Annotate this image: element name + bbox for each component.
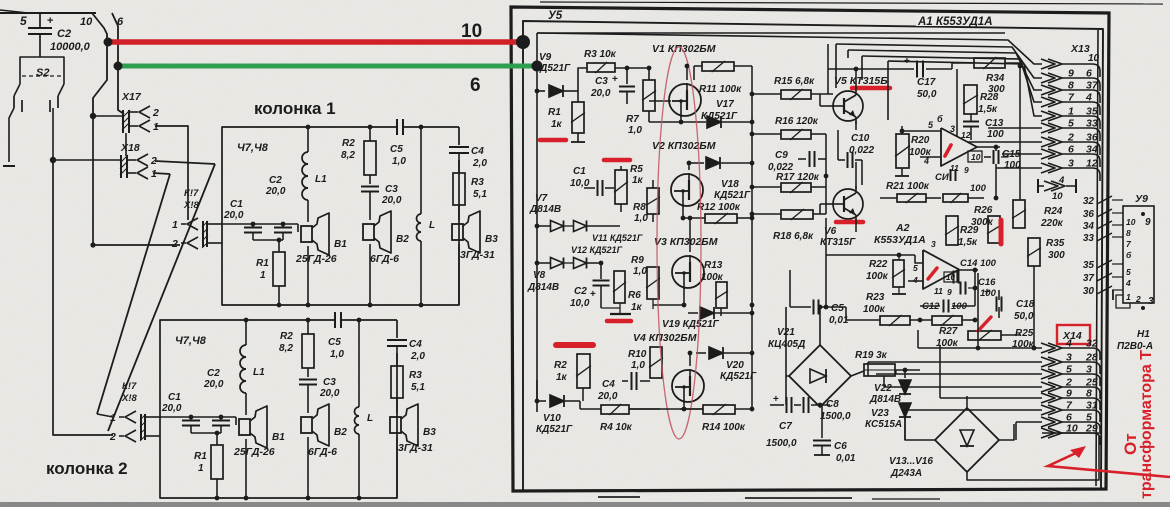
- svg-text:C1: C1: [168, 392, 181, 403]
- svg-text:C9: C9: [775, 150, 788, 161]
- svg-text:9: 9: [1068, 68, 1074, 80]
- svg-text:2: 2: [109, 431, 116, 443]
- red slash R25: [978, 317, 991, 331]
- resistor R25: [968, 331, 1001, 340]
- svg-text:R2: R2: [342, 138, 355, 149]
- svg-text:1к: 1к: [632, 175, 644, 186]
- svg-text:6: 6: [1068, 144, 1074, 156]
- capacitor C2: [39, 13, 41, 27]
- rail junction dots: [535, 89, 540, 94]
- svg-text:V4 КП302БМ: V4 КП302БМ: [633, 332, 697, 344]
- wire cross 34: [1097, 221, 1112, 229]
- svg-text:V10: V10: [543, 413, 561, 424]
- outer border: [511, 7, 1109, 491]
- wire caps join: [191, 432, 221, 434]
- inner module left rail: [536, 33, 538, 412]
- svg-text:R1: R1: [256, 258, 269, 269]
- connector X13 row 8: [1041, 149, 1055, 159]
- resistor R27: [932, 316, 962, 325]
- svg-text:20,0: 20,0: [319, 388, 340, 399]
- wire 6 drop: [112, 13, 124, 114]
- svg-text:3: 3: [950, 124, 955, 134]
- svg-text:20,0: 20,0: [203, 379, 224, 390]
- svg-text:V8: V8: [533, 270, 546, 281]
- resistor R14: [703, 405, 735, 414]
- svg-text:1,0: 1,0: [631, 360, 645, 371]
- svg-text:4: 4: [1065, 338, 1072, 350]
- svg-text:C3: C3: [595, 76, 608, 87]
- svg-text:R20: R20: [911, 135, 930, 146]
- svg-text:S2: S2: [36, 67, 49, 79]
- svg-text:C18: C18: [1016, 299, 1035, 310]
- svg-text:R3 10к: R3 10к: [584, 49, 617, 60]
- svg-text:11: 11: [934, 286, 943, 296]
- wire right column risers: [1019, 66, 1021, 200]
- resistor R20: [896, 134, 909, 168]
- svg-text:36: 36: [1086, 132, 1098, 144]
- wire C15 feedback drop: [995, 164, 997, 198]
- svg-text:R21 100к: R21 100к: [886, 181, 930, 192]
- svg-text:9: 9: [1066, 388, 1072, 400]
- svg-text:V2 КП302БМ: V2 КП302БМ: [652, 140, 716, 152]
- svg-text:34: 34: [1086, 144, 1098, 156]
- svg-text:V19 КД521Г: V19 КД521Г: [662, 319, 720, 330]
- resistor R2: [307, 320, 309, 334]
- svg-text:R16 120к: R16 120к: [775, 116, 819, 127]
- svg-text:V20: V20: [726, 360, 744, 371]
- svg-text:L: L: [367, 413, 373, 424]
- connector X13 row 1: [1041, 59, 1055, 69]
- node red right: [516, 35, 530, 49]
- wire input bus: [222, 223, 298, 225]
- svg-text:R24: R24: [1044, 206, 1063, 217]
- wire X14 feed risers: [917, 330, 919, 348]
- svg-text:5,1: 5,1: [473, 189, 487, 200]
- speaker box 2 outline: [160, 320, 397, 498]
- red slash A2: [928, 268, 937, 279]
- svg-text:100к: 100к: [866, 271, 889, 282]
- svg-text:+: +: [984, 287, 990, 298]
- connector X13 row 9: [1041, 163, 1055, 173]
- svg-text:4: 4: [1085, 92, 1092, 104]
- wire R19 to X14: [895, 370, 897, 374]
- svg-text:4: 4: [912, 275, 918, 285]
- svg-text:1к: 1к: [631, 302, 643, 313]
- svg-text:20,0: 20,0: [223, 210, 244, 221]
- connector X14 row 2: [1041, 357, 1055, 367]
- svg-text:1: 1: [1126, 292, 1131, 302]
- svg-text:C1: C1: [230, 199, 243, 210]
- svg-text:V12 КД521Г: V12 КД521Г: [571, 245, 623, 255]
- svg-text:10: 10: [971, 152, 981, 162]
- svg-text:2: 2: [1135, 294, 1141, 304]
- svg-text:R17 120к: R17 120к: [776, 172, 820, 183]
- svg-text:колонка 1: колонка 1: [254, 99, 336, 118]
- svg-text:V22: V22: [874, 383, 892, 394]
- wire 10 drop: [92, 13, 107, 114]
- svg-text:Д814В: Д814В: [869, 394, 901, 405]
- speaker B3: [390, 417, 401, 433]
- svg-text:X18: X18: [120, 142, 140, 154]
- svg-text:КД521Г: КД521Г: [714, 190, 751, 201]
- svg-text:+: +: [612, 74, 618, 85]
- svg-text:Н1: Н1: [1137, 329, 1150, 340]
- svg-text:B1: B1: [334, 239, 347, 250]
- svg-text:1,0: 1,0: [628, 125, 642, 136]
- svg-text:К553УД1А: К553УД1А: [874, 234, 926, 246]
- node X18 feed: [50, 157, 56, 163]
- svg-text:1,0: 1,0: [392, 156, 406, 167]
- wire input bus: [160, 416, 236, 418]
- wire diagonal D1: [97, 174, 170, 414]
- wire X18 feed: [53, 159, 122, 161]
- svg-text:колонка 2: колонка 2: [46, 459, 128, 478]
- svg-text:5: 5: [20, 14, 27, 28]
- svg-text:33: 33: [1086, 118, 1098, 130]
- wire green 6: [118, 64, 537, 69]
- svg-text:5: 5: [1126, 267, 1131, 277]
- inductor L: [358, 320, 360, 407]
- node red left: [104, 38, 113, 47]
- svg-text:1,5к: 1,5к: [978, 104, 998, 115]
- svg-text:20,0: 20,0: [161, 403, 182, 414]
- capacitor C4: [387, 339, 407, 341]
- svg-text:R22: R22: [869, 259, 888, 270]
- svg-text:А1 К553УД1А: А1 К553УД1А: [917, 16, 993, 28]
- svg-text:32: 32: [1083, 196, 1095, 207]
- speaker B2: [301, 417, 312, 433]
- svg-text:B3: B3: [423, 427, 436, 438]
- speaker B1: [301, 226, 312, 242]
- svg-text:2,0: 2,0: [472, 158, 487, 169]
- svg-text:R11 100к: R11 100к: [699, 84, 742, 95]
- svg-text:10,0: 10,0: [570, 298, 590, 309]
- svg-text:б: б: [937, 114, 943, 124]
- svg-text:R35: R35: [1046, 238, 1065, 249]
- svg-text:50,0: 50,0: [917, 89, 937, 100]
- svg-text:C2: C2: [207, 368, 220, 379]
- svg-text:2: 2: [152, 107, 159, 119]
- svg-text:КС515А: КС515А: [865, 419, 902, 430]
- svg-text:3: 3: [1068, 158, 1074, 170]
- wire R18 column down to PSU: [825, 218, 827, 307]
- bridge2 wires: [905, 417, 935, 440]
- svg-text:C7: C7: [779, 421, 792, 432]
- svg-text:37: 37: [1083, 273, 1095, 284]
- svg-text:100: 100: [970, 183, 987, 194]
- wire S2 left leg: [9, 108, 14, 162]
- wire bus risers: [835, 44, 837, 88]
- wire caps join: [253, 239, 283, 241]
- svg-text:L1: L1: [253, 367, 265, 378]
- svg-text:C2: C2: [574, 286, 587, 297]
- svg-text:C1: C1: [573, 166, 586, 177]
- svg-text:8: 8: [1126, 228, 1131, 238]
- svg-text:C5: C5: [328, 337, 341, 348]
- svg-text:трансформатора Т: трансформатора Т: [1138, 350, 1155, 499]
- svg-text:1,5к: 1,5к: [958, 237, 978, 248]
- svg-text:220к: 220к: [1040, 218, 1064, 229]
- op-amp A2: [923, 250, 959, 289]
- resistor R21b: [943, 194, 968, 202]
- red ellipse annotation: [657, 47, 701, 439]
- svg-text:B2: B2: [334, 427, 347, 438]
- svg-text:5: 5: [1066, 364, 1072, 376]
- wire cross 30: [1097, 286, 1112, 294]
- svg-text:20,0: 20,0: [265, 186, 286, 197]
- svg-text:9: 9: [1145, 217, 1151, 228]
- wire vertical bus to kolonka1 pin2: [93, 116, 180, 245]
- capacitor C3: [369, 175, 371, 184]
- svg-text:R14 100к: R14 100к: [702, 422, 746, 433]
- inductor L1: [307, 127, 309, 152]
- bridge V21 wires: [819, 307, 821, 345]
- inner module top wire: [537, 32, 1005, 34]
- svg-text:B2: B2: [396, 234, 409, 245]
- wire cross 33: [1097, 233, 1112, 241]
- svg-text:C5: C5: [831, 303, 844, 314]
- svg-text:9: 9: [964, 165, 969, 175]
- svg-text:10: 10: [1126, 217, 1136, 227]
- svg-text:35: 35: [1083, 260, 1095, 271]
- svg-text:С14 100: С14 100: [960, 258, 997, 269]
- svg-text:6ГД-6: 6ГД-6: [370, 253, 399, 265]
- svg-text:R1: R1: [548, 107, 561, 118]
- svg-text:3ГД-31: 3ГД-31: [398, 442, 433, 454]
- connector X14 row 3: [1041, 369, 1055, 379]
- resistor R2: [369, 127, 371, 141]
- svg-text:V11 КД521Г: V11 КД521Г: [592, 233, 643, 243]
- connector X13 row 6: [1041, 123, 1055, 133]
- svg-text:К!7: К!7: [184, 188, 199, 199]
- svg-text:36: 36: [1083, 209, 1095, 220]
- svg-text:X14: X14: [1062, 330, 1082, 342]
- svg-text:V23: V23: [871, 408, 889, 419]
- svg-text:20,0: 20,0: [381, 195, 402, 206]
- resistor R12: [705, 214, 737, 223]
- resistor R1: [278, 240, 280, 252]
- svg-text:Ч7,Ч8: Ч7,Ч8: [237, 142, 269, 154]
- svg-text:C4: C4: [602, 379, 615, 390]
- connector X13 row 3: [1041, 85, 1055, 95]
- svg-text:1500,0: 1500,0: [820, 411, 851, 422]
- capacitor C5: [396, 119, 398, 135]
- connector X14 row 1: [1041, 343, 1055, 353]
- wire A2 output drop: [977, 273, 979, 348]
- svg-text:+: +: [47, 15, 53, 27]
- svg-text:1: 1: [260, 270, 266, 281]
- svg-text:2: 2: [171, 238, 178, 250]
- svg-text:R2: R2: [280, 331, 293, 342]
- inductor L: [420, 127, 422, 214]
- speaker B3: [452, 224, 463, 240]
- resistor R34: [974, 58, 1005, 68]
- wire bus to X13: [537, 33, 1042, 64]
- svg-text:C10: C10: [851, 133, 870, 144]
- svg-text:12: 12: [1086, 158, 1098, 170]
- svg-text:R10: R10: [628, 349, 647, 360]
- svg-text:25ГД-26: 25ГД-26: [233, 446, 275, 458]
- svg-text:R8: R8: [633, 202, 646, 213]
- svg-text:X13: X13: [1070, 43, 1090, 55]
- wire X18-1 to diagonal: [153, 173, 170, 174]
- svg-text:R28: R28: [980, 92, 999, 103]
- wire feeds X14: [918, 347, 1042, 349]
- wire V5 base: [820, 105, 829, 107]
- svg-text:V9: V9: [539, 52, 552, 63]
- svg-text:R19 3к: R19 3к: [855, 350, 888, 361]
- svg-text:Д814В: Д814В: [527, 282, 559, 293]
- speaker box 2 group: [109, 312, 436, 500]
- wire A2 apex out: [959, 269, 978, 271]
- svg-text:6: 6: [470, 75, 481, 96]
- resistor R3: [453, 173, 465, 205]
- svg-text:3ГД-31: 3ГД-31: [460, 249, 495, 261]
- node green right: [532, 61, 543, 72]
- svg-text:+: +: [773, 394, 779, 405]
- svg-text:V3 КП302БМ: V3 КП302БМ: [654, 236, 718, 248]
- svg-text:R7: R7: [626, 114, 639, 125]
- connector X14 row 8: [1041, 428, 1055, 438]
- svg-text:1: 1: [198, 463, 204, 474]
- connector X14 row 6: [1041, 405, 1055, 415]
- svg-text:У9: У9: [1135, 193, 1148, 205]
- speaker B2: [363, 224, 374, 240]
- svg-text:5,1: 5,1: [411, 382, 425, 393]
- wire feeds X13 lower rows: [988, 127, 1042, 129]
- svg-text:30: 30: [1083, 286, 1095, 297]
- svg-text:3: 3: [1148, 296, 1154, 307]
- inductor L1: [245, 320, 247, 345]
- wire C17 riser: [827, 44, 829, 94]
- svg-text:R5: R5: [630, 164, 643, 175]
- connector X14 row 5: [1041, 393, 1055, 403]
- svg-text:4: 4: [1125, 278, 1131, 288]
- svg-text:КД521Г: КД521Г: [536, 424, 573, 435]
- wire cross 35: [1097, 260, 1112, 268]
- wire cross 32: [1097, 196, 1112, 204]
- diode row V8 V12: [537, 262, 550, 264]
- red mark V5: [852, 86, 890, 91]
- svg-text:20,0: 20,0: [597, 391, 618, 402]
- svg-text:C2: C2: [269, 175, 282, 186]
- svg-text:2,0: 2,0: [410, 351, 425, 362]
- svg-text:35: 35: [1086, 106, 1098, 118]
- red mark under R1: [540, 138, 566, 143]
- svg-text:У5: У5: [548, 10, 563, 22]
- svg-text:100: 100: [987, 129, 1004, 140]
- svg-text:1,0: 1,0: [330, 349, 344, 360]
- op-amp A1: [941, 128, 977, 166]
- wire vertical bus to kolonka2 pin2: [53, 160, 113, 435]
- wire diagonal D2: [108, 164, 215, 431]
- svg-text:С6: С6: [834, 441, 847, 452]
- svg-text:6ГД-6: 6ГД-6: [308, 446, 337, 458]
- svg-text:2: 2: [1067, 132, 1074, 144]
- svg-text:100: 100: [1004, 160, 1021, 171]
- svg-text:10: 10: [461, 21, 482, 42]
- svg-text:8: 8: [1086, 388, 1092, 400]
- svg-text:R26: R26: [974, 205, 993, 216]
- svg-text:12: 12: [961, 130, 971, 140]
- svg-text:5: 5: [913, 263, 918, 273]
- svg-text:Ч7,Ч8: Ч7,Ч8: [175, 335, 207, 347]
- svg-text:К!7: К!7: [122, 381, 137, 392]
- svg-text:8,2: 8,2: [341, 150, 355, 161]
- svg-text:V18: V18: [721, 179, 739, 190]
- wire V5 emitter down: [855, 121, 857, 130]
- wire plug bars link: [125, 133, 127, 156]
- connector X13 row 4-10: [1037, 179, 1039, 193]
- connector X13 row 2: [1041, 73, 1055, 83]
- connector X14 red box: [1057, 325, 1090, 344]
- svg-text:1: 1: [172, 219, 178, 231]
- svg-text:1: 1: [110, 412, 116, 424]
- svg-text:X17: X17: [121, 91, 142, 103]
- resistor R11: [702, 62, 734, 71]
- wire A2 inputs: [826, 254, 915, 256]
- wire stage2 vertical: [825, 134, 827, 214]
- svg-text:L: L: [429, 220, 435, 231]
- svg-text:Д814В: Д814В: [529, 204, 561, 215]
- svg-text:X!8: X!8: [183, 200, 200, 211]
- svg-text:5: 5: [1068, 118, 1074, 130]
- svg-text:20,0: 20,0: [590, 88, 611, 99]
- svg-text:R9: R9: [631, 255, 644, 266]
- wire cross 36: [1097, 209, 1112, 217]
- svg-text:б: б: [1126, 250, 1132, 260]
- svg-text:1500,0: 1500,0: [766, 438, 797, 449]
- wire C15 to row: [1001, 154, 1008, 157]
- svg-text:8,2: 8,2: [279, 343, 293, 354]
- resistor R3: [391, 366, 403, 398]
- svg-text:9: 9: [947, 287, 952, 297]
- scan edge top line: [540, 2, 1163, 4]
- svg-text:V13...V16: V13...V16: [889, 456, 933, 467]
- svg-text:R18 6,8к: R18 6,8к: [773, 231, 814, 242]
- wire opamp A1 inputs: [902, 130, 941, 132]
- svg-text:СИ: СИ: [935, 172, 949, 183]
- svg-text:R13: R13: [704, 260, 723, 271]
- connector X13 row 4: [1041, 97, 1055, 107]
- svg-text:300: 300: [1048, 250, 1065, 261]
- red slash A1: [945, 145, 951, 156]
- svg-text:8: 8: [1068, 80, 1074, 92]
- svg-text:R1: R1: [194, 451, 207, 462]
- red vertical mark: [999, 220, 1004, 244]
- svg-text:R6: R6: [628, 290, 641, 301]
- wire opamp A1 output: [977, 146, 1000, 148]
- svg-text:Д243А: Д243А: [890, 468, 922, 479]
- resistor R1: [216, 433, 218, 445]
- svg-text:6: 6: [1086, 68, 1092, 80]
- svg-text:4: 4: [1058, 175, 1065, 186]
- wire column junctions: [751, 66, 753, 409]
- svg-text:R25: R25: [1015, 328, 1034, 339]
- svg-text:C5: C5: [390, 144, 403, 155]
- capacitor C3: [307, 368, 309, 377]
- capacitor C5: [334, 312, 336, 328]
- wire V6 base: [820, 203, 829, 205]
- svg-text:+: +: [590, 289, 596, 300]
- resistor R4: [601, 405, 629, 414]
- wire V10 left: [536, 380, 538, 401]
- svg-text:10: 10: [1052, 191, 1063, 202]
- red mark above R2: [556, 342, 593, 348]
- svg-text:R29: R29: [960, 225, 979, 236]
- resistor R28: [964, 85, 977, 114]
- svg-text:1к: 1к: [551, 119, 563, 130]
